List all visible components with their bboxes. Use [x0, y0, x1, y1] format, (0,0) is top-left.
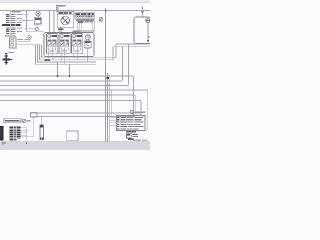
motor M2 small pump in enclosure	[84, 35, 91, 62]
node A circle left	[18, 36, 31, 42]
wire relay pin drops	[49, 50, 77, 64]
label above enclosure	[73, 30, 80, 31]
pin rows group 1	[6, 14, 22, 23]
wire pump to relay row	[58, 27, 60, 33]
wire nested routing left of relay box	[36, 44, 117, 64]
table outline	[117, 116, 146, 131]
label S1	[18, 39, 24, 40]
label above line	[56, 5, 66, 7]
wire stubs from X4	[21, 117, 34, 143]
wire from S1 to relay area	[16, 44, 42, 46]
inner box of X2	[78, 21, 95, 32]
fan blades symbol	[61, 16, 70, 25]
switch S1 left box	[10, 38, 17, 48]
wire R1	[121, 47, 122, 81]
node circle title	[130, 110, 134, 114]
connector X1 top-left block	[2, 11, 29, 37]
wire stub into X1	[9, 11, 11, 37]
node junction dots	[57, 75, 59, 77]
wire verticals to relay box	[50, 11, 55, 34]
wire main top bus y=10.5	[0, 10, 150, 12]
connector X5 bottom-right table	[109, 110, 146, 139]
node junction on top bus	[105, 10, 107, 12]
node ground circle mid-left	[35, 28, 39, 32]
bottom gray bar	[0, 142, 150, 150]
wire stubs into X5	[109, 118, 117, 126]
label X1 dark band	[2, 24, 21, 26]
wire bus B4 y=90	[0, 89, 148, 91]
node N1 circle symbol right of X2	[99, 18, 103, 22]
label under relay box	[45, 59, 51, 61]
wire bus B2 y=81	[0, 80, 123, 82]
wire label rows	[10, 127, 21, 141]
wire pair into pump	[56, 7, 58, 11]
wire bus B8 y=116.5	[31, 116, 136, 118]
label X4 title box	[4, 119, 21, 123]
ground GND cross symbol	[3, 52, 15, 65]
black body	[0, 126, 4, 140]
wire R4 vertical from bus B5	[134, 95, 135, 116]
pin rows group 2	[6, 27, 22, 34]
wire bus B1 y=76	[0, 75, 134, 77]
box P1 bottom small	[67, 131, 78, 141]
label under pump	[58, 28, 64, 30]
wire center long verticals	[106, 8, 112, 141]
label M1 title	[58, 12, 63, 14]
wire right-top connections y44/46.5	[113, 44, 150, 47]
wire X2 down to relays	[79, 31, 81, 34]
wire R3 corner from bus B1	[132, 76, 133, 116]
wire R2	[127, 44, 128, 86]
connector X3 bus end-cap	[31, 112, 38, 117]
wire from X1 area to node	[27, 11, 45, 32]
tick marks on gray bar	[3, 142, 4, 145]
relay box outer enclosure	[44, 30, 94, 56]
table rows	[117, 117, 143, 130]
node circle right of title	[22, 119, 25, 122]
wire under-box H1	[42, 44, 117, 58]
sensor B1 top small component	[34, 12, 41, 24]
relay K1	[47, 34, 58, 54]
wire taps to bus	[58, 62, 70, 76]
motor M1 pump box top-center	[56, 5, 74, 33]
wire stubs right of X1 rows	[16, 15, 29, 21]
wire bus B3 y=85.5	[0, 85, 129, 87]
wire bus B5 y=95	[0, 94, 134, 96]
label row	[5, 35, 16, 36]
battery G1 right top box	[134, 7, 151, 44]
connector X2 top table	[75, 13, 95, 34]
wire R5 from bus B6	[140, 101, 141, 116]
label footer text	[133, 140, 141, 141]
label X5 notes below	[126, 131, 138, 140]
wire under-box H2	[40, 45, 114, 60]
page background	[0, 0, 150, 150]
wire right nested verticals	[121, 44, 148, 131]
wire under pin row	[75, 18, 95, 20]
wire R6 from bus B4	[146, 90, 147, 131]
fuse F1	[40, 117, 43, 140]
wire L1	[36, 45, 97, 65]
label B1 cap	[35, 18, 41, 20]
wire bus B7 y=113	[31, 112, 142, 114]
connector X4 bottom-left block	[0, 117, 34, 145]
wire into B1	[22, 21, 38, 29]
label node A	[24, 39, 28, 40]
wire L2	[38, 45, 97, 62]
relay K3	[72, 34, 83, 54]
label X1 title	[12, 11, 21, 12]
node dark tap	[107, 77, 109, 79]
wire bus B6 y=100.5	[0, 100, 141, 102]
relay K2	[59, 34, 70, 54]
top gray bar	[0, 0, 150, 3]
